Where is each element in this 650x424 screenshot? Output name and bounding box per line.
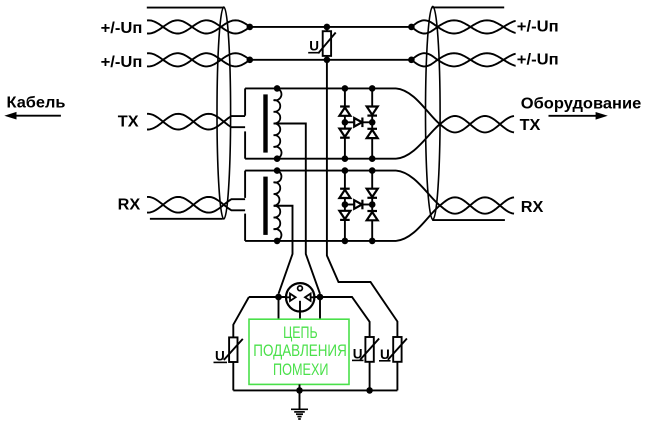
svg-text:RX: RX xyxy=(521,199,544,216)
junction dot -Up bus left xyxy=(247,57,254,64)
junction dot VD-RX at 345,171 xyxy=(342,167,349,174)
label +/-Up left 1 xyxy=(101,20,143,37)
wire FV1 left electrode to box xyxy=(278,297,280,319)
wire RU2 to ground rail xyxy=(232,362,234,390)
label suppression line2 xyxy=(253,342,346,360)
wire VD-RX left column xyxy=(344,171,346,241)
wire FV1 center electrode xyxy=(299,301,301,319)
junction dot ground rail RU3 xyxy=(366,387,373,394)
transformer T1 (TX) winding xyxy=(274,88,282,158)
svg-text:RX: RX xyxy=(118,197,141,214)
transformer T2 (RX) bracket xyxy=(244,171,246,241)
junction dot transformer T1 (TX) coil bottom xyxy=(274,155,281,162)
svg-text:+/-Uп: +/-Uп xyxy=(101,20,143,37)
svg-text:ПОДАВЛЕНИЯ: ПОДАВЛЕНИЯ xyxy=(253,342,346,360)
svg-text:ЦЕПЬ: ЦЕПЬ xyxy=(283,324,318,342)
wire cable-shield top right xyxy=(432,6,504,8)
svg-text:TX: TX xyxy=(118,113,139,130)
diode VD-TX2 (down) xyxy=(339,129,350,138)
wire ground rail xyxy=(233,389,397,391)
twisted pair RX left (cable side) xyxy=(147,197,245,213)
junction dot -Up bus right xyxy=(408,57,415,64)
label TX left xyxy=(118,113,139,130)
wire transformer T2 (RX) bottom rail xyxy=(245,240,396,242)
junction dot VD-TX at 372,88 xyxy=(369,85,376,92)
junction dot VD-TX at 345,88 xyxy=(342,85,349,92)
label U of RU1 xyxy=(308,39,320,54)
junction dot transformer T2 (RX) coil top xyxy=(274,167,281,174)
diode VD-RX1 (up) xyxy=(339,189,350,198)
twisted pair TX right (equipment side) xyxy=(396,88,514,158)
label suppression line3 xyxy=(273,361,329,379)
wire T1 center tap xyxy=(274,124,320,294)
ground symbol xyxy=(291,409,308,419)
varistor RU1 body xyxy=(318,31,336,56)
diode VD-TX3 (down) xyxy=(367,107,378,116)
arrow to cable (left) xyxy=(4,112,61,120)
wire RU3 to ground rail xyxy=(369,362,371,391)
twisted pair +/-Up upper right (equipment side) xyxy=(411,20,515,33)
label RX right xyxy=(521,199,544,216)
cable shield left (ellipse) xyxy=(217,7,231,219)
wire GDT left feed xyxy=(249,296,286,298)
svg-text:TX: TX xyxy=(520,117,541,134)
svg-text:Оборудование: Оборудование xyxy=(521,95,642,112)
junction dot VD-RX at 372,204 xyxy=(369,201,376,208)
wire FV1-left to RU2 xyxy=(233,297,249,337)
wire FV1 right electrode to box xyxy=(319,297,321,319)
svg-text:+/-Uп: +/-Uп xyxy=(101,54,143,71)
arrester FV1 (gas discharge tube) xyxy=(286,283,314,311)
wire transformer T2 (RX) top rail xyxy=(245,170,396,172)
junction dot VD-RX at 345,204 xyxy=(342,201,349,208)
svg-text:U: U xyxy=(309,39,319,54)
svg-text:U: U xyxy=(380,347,390,362)
wire cable-shield bottom left xyxy=(150,218,223,220)
junction dot VD-RX at 372,171 xyxy=(369,167,376,174)
junction dot +Up bus right xyxy=(408,24,415,31)
label Equipment xyxy=(521,95,642,112)
wire FV1-right to RU3 xyxy=(320,297,370,337)
diode VD-RX3 (down) xyxy=(367,189,378,198)
twisted pair +/-Up lower left (cable side) xyxy=(147,53,250,66)
wire VD-RX middle link xyxy=(345,204,372,206)
varistor RU4 body xyxy=(388,337,407,362)
junction dot transformer T2 (RX) coil bottom xyxy=(274,238,281,245)
label U of RU3 xyxy=(352,346,364,361)
diode VD-TX4 (up) xyxy=(367,129,378,138)
twisted pair RX right (equipment side) xyxy=(396,171,514,241)
label U of RU2 xyxy=(214,348,228,363)
label +/-Up left 2 xyxy=(101,54,143,71)
wire cable-shield bottom right xyxy=(432,219,505,221)
diode VD-RX4 (up) xyxy=(367,211,378,220)
junction dot VD-TX at 345,122 xyxy=(342,119,349,126)
arrow to equipment (right) xyxy=(549,112,608,120)
wire transformer T1 (TX) top rail xyxy=(245,87,396,89)
label +/-Up right 1 xyxy=(517,19,559,36)
diode VD-RX5 (right) xyxy=(354,200,362,210)
junction dot +Up bus left xyxy=(247,24,254,31)
wire RU4 to ground rail xyxy=(396,362,398,391)
svg-text:U: U xyxy=(353,346,363,361)
cable shield right (ellipse) xyxy=(426,6,441,219)
diode VD-RX2 (down) xyxy=(339,211,350,220)
junction dot VD-TX at 372,122 xyxy=(369,119,376,126)
diode VD-TX5 (right) xyxy=(354,118,362,128)
wire VD-TX left column xyxy=(344,88,346,158)
varistor RU1 leads xyxy=(326,27,328,60)
junction dot RU1 top xyxy=(324,24,331,31)
junction dot FV1 right xyxy=(317,294,324,301)
wire -Up bus xyxy=(250,59,412,61)
transformer T1 (TX) core xyxy=(263,94,267,152)
wire VD-TX right column xyxy=(371,88,373,158)
label +/-Up right 2 xyxy=(517,52,559,69)
junction dot VD-RX at 372,241 xyxy=(369,238,376,245)
wire RU1 branch to RU4 xyxy=(327,60,398,337)
transformer T1 (TX) bracket xyxy=(244,88,246,158)
twisted pair TX left (cable side) xyxy=(147,114,245,130)
junction dot VD-TX at 372,159 xyxy=(369,155,376,162)
label Cable xyxy=(7,94,66,111)
wire box to ground stem xyxy=(299,384,301,408)
junction dot ground rail center xyxy=(296,387,303,394)
junction dot FV1 left xyxy=(275,294,282,301)
svg-text:+/-Uп: +/-Uп xyxy=(517,19,559,36)
varistor RU2 body xyxy=(224,337,243,362)
svg-text:U: U xyxy=(215,348,225,363)
label suppression line1 xyxy=(283,324,318,342)
wire transformer T1 (TX) bottom rail xyxy=(245,158,396,160)
svg-text:ПОМЕХИ: ПОМЕХИ xyxy=(273,361,329,379)
label U of RU4 xyxy=(379,347,391,362)
wire cable-shield top left xyxy=(147,7,225,9)
wire T2 center tap xyxy=(274,206,293,294)
junction dot VD-TX at 345,159 xyxy=(342,155,349,162)
label RX left xyxy=(118,197,141,214)
varistor RU3 body xyxy=(360,337,379,362)
wire VD-RX right column xyxy=(371,171,373,241)
label TX right xyxy=(520,117,541,134)
diode VD-TX1 (up) xyxy=(339,107,350,116)
wire +Up bus xyxy=(250,26,412,28)
junction dot VD-RX at 345,241 xyxy=(342,238,349,245)
wire VD-TX middle link xyxy=(345,121,372,123)
wire GDT right feed xyxy=(314,296,352,298)
junction dot RU1 bottom xyxy=(324,57,331,64)
svg-text:Кабель: Кабель xyxy=(7,94,66,111)
transformer T2 (RX) core xyxy=(263,177,267,235)
suppression network box xyxy=(249,319,349,384)
svg-text:+/-Uп: +/-Uп xyxy=(517,52,559,69)
transformer T2 (RX) winding xyxy=(274,171,282,241)
twisted pair +/-Up lower right (equipment side) xyxy=(411,53,515,66)
junction dot transformer T1 (TX) coil top xyxy=(274,85,281,92)
twisted pair +/-Up upper left (cable side) xyxy=(147,20,250,33)
